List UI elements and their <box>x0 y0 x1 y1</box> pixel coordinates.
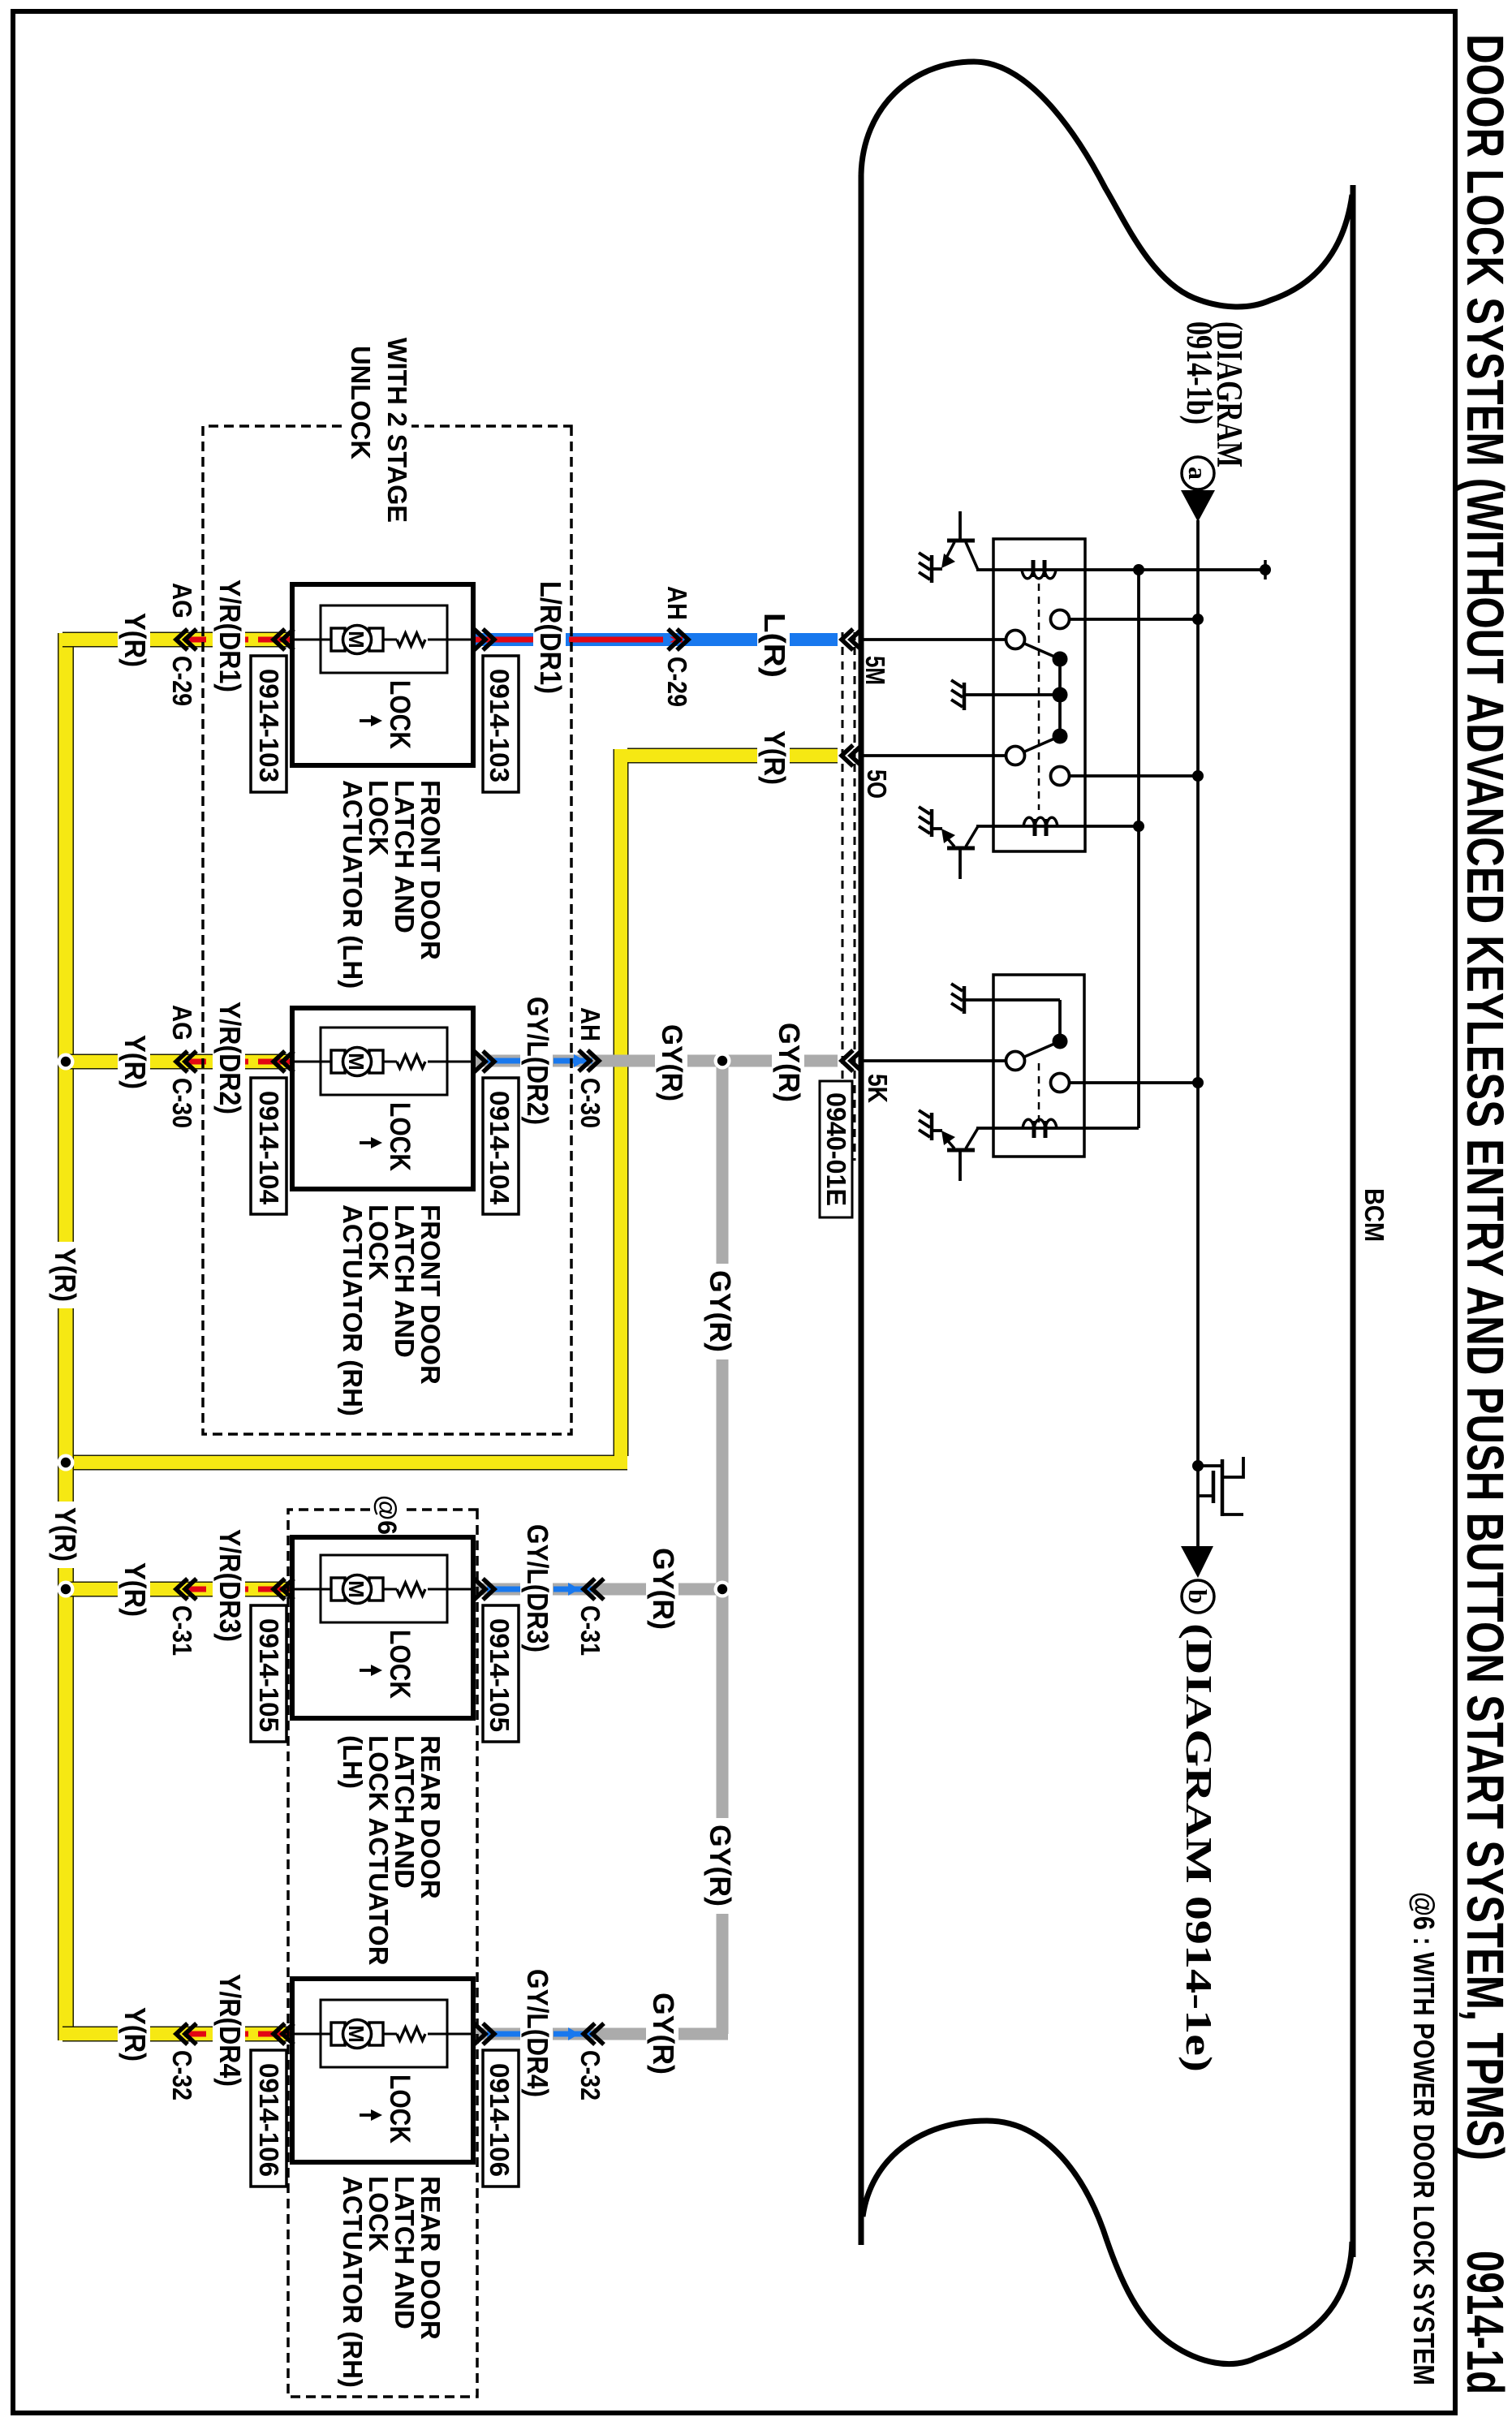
relay1 coil B <box>1023 817 1058 836</box>
actuator4 inner unit <box>321 2000 447 2067</box>
svg-text:LOCK: LOCK <box>384 2075 416 2143</box>
actuator1 resistor <box>397 633 425 646</box>
coil feed line for relay1 coil A (vertical x=702) <box>976 568 1267 571</box>
BCM outline bottom edge <box>859 174 864 2245</box>
svg-text:AH: AH <box>575 1007 605 1041</box>
actuator1 connector label 0914-103 above <box>483 656 519 792</box>
BCM outline top edge <box>1350 185 1356 2257</box>
triangle a <box>1181 490 1215 522</box>
wire GY/L(DR3) <box>473 1583 594 1596</box>
svg-text:(DIAGRAM 0914-1e): (DIAGRAM 0914-1e) <box>1178 1623 1219 2072</box>
svg-text:GY/L(DR3): GY/L(DR3) <box>521 1524 554 1652</box>
actuator 2 : front door latch and lock actuator (RH) <box>274 1008 494 1189</box>
FET transistor <box>1198 1457 1243 1516</box>
svg-text:@6: @6 <box>373 1495 402 1535</box>
actuator 4 : rear door latch and lock actuator (RH) <box>274 1979 494 2162</box>
circled a <box>1182 457 1214 489</box>
svg-text:0914-103: 0914-103 <box>254 669 284 782</box>
label Y(R) act1 drop <box>118 607 152 674</box>
actuator1 lock arrow <box>360 719 374 722</box>
svg-text:LOCK: LOCK <box>364 2176 394 2252</box>
ground for Q1 <box>919 553 932 583</box>
actuator4 lower wires <box>62 2027 292 2042</box>
wire taper tip at C-29 <box>663 633 674 646</box>
actuator4 resistor <box>397 2027 425 2040</box>
ground for Q3 <box>919 1110 932 1140</box>
actuator2 internal wire <box>292 1061 473 1063</box>
connector C-31 on actuator3 top wire <box>584 1579 604 1600</box>
connector C-29 on actuator1 top wire <box>668 629 688 650</box>
svg-text:0914-105: 0914-105 <box>254 1618 284 1732</box>
ground for Q2 <box>919 807 932 837</box>
a-line junction dot near FET <box>1192 1460 1204 1471</box>
label GY/L(DR3) <box>520 1519 554 1659</box>
svg-text:0914-103: 0914-103 <box>485 669 515 782</box>
svg-text:0914-106: 0914-106 <box>254 2063 284 2177</box>
svg-text:GY(R): GY(R) <box>773 1023 806 1102</box>
coil bus line y=460 <box>1137 570 1140 1128</box>
relay1 blade unlock <box>1015 736 1060 756</box>
svg-text:0940-01E: 0940-01E <box>821 1092 851 1206</box>
power line a (horizontal) <box>1196 520 1200 1546</box>
svg-text:REAR DOOR: REAR DOOR <box>416 1735 446 1899</box>
actuator 3 : rear door latch and lock actuator (LH) <box>274 1537 494 1718</box>
svg-text:DOOR LOCK SYSTEM (WITHOUT ADVA: DOOR LOCK SYSTEM (WITHOUT ADVANCED KEYLE… <box>1456 34 1512 2161</box>
svg-text:Y(R): Y(R) <box>118 1562 152 1617</box>
svg-text:LATCH AND: LATCH AND <box>390 780 420 933</box>
connector C-32 on actuator4 drop <box>176 2023 196 2044</box>
transistor Q1 <box>933 511 978 570</box>
wire GY(R) gray from BCM 5K <box>594 1055 838 1067</box>
svg-text:0914-104: 0914-104 <box>485 1091 515 1205</box>
actuator1 internal wire <box>292 639 473 641</box>
svg-text:GY(R): GY(R) <box>656 1024 687 1101</box>
svg-text:(LH): (LH) <box>338 1735 368 1789</box>
svg-text:REAR DOOR: REAR DOOR <box>416 2176 446 2340</box>
wire taper tip at C-30 <box>574 1054 585 1067</box>
svg-text:Y(R): Y(R) <box>118 1035 152 1089</box>
svg-text:Y(R): Y(R) <box>49 1507 82 1562</box>
wire taper tip at C-31 <box>568 1583 579 1596</box>
label GY(R) on act4 drop <box>646 1987 680 2081</box>
relay 2 box <box>993 975 1084 1157</box>
relay1 mid ground <box>951 680 964 710</box>
actuator1 connector label 0914-103 below <box>251 656 286 792</box>
svg-text:@6 : WITH POWER DOOR LOCK SYST: @6 : WITH POWER DOOR LOCK SYSTEM <box>1407 1892 1441 2385</box>
a-line junction dots <box>1192 614 1204 625</box>
svg-text:L(R): L(R) <box>758 613 791 678</box>
actuator3 connector chevrons <box>474 1579 494 1600</box>
svg-text:0914-106: 0914-106 <box>485 2063 515 2177</box>
svg-text:Y/R(DR4): Y/R(DR4) <box>213 1974 247 2087</box>
relay2 blade <box>1015 1041 1060 1061</box>
connector C-30 on actuator2 top wire <box>579 1050 599 1071</box>
circled b <box>1182 1580 1214 1613</box>
actuator4 lock arrow <box>360 2113 374 2117</box>
svg-text:Y/R(DR3): Y/R(DR3) <box>213 1529 247 1642</box>
svg-text:C-32: C-32 <box>167 2050 197 2100</box>
label Y/R(DR1) <box>213 575 247 700</box>
actuator3 connector label 0914-105 below <box>251 1605 286 1742</box>
svg-text:GY/L(DR4): GY/L(DR4) <box>521 1969 554 2097</box>
label L(R) <box>757 607 791 682</box>
actuator3 connector label 0914-105 above <box>483 1605 519 1742</box>
relay1 contact circles <box>1051 610 1070 629</box>
actuator1 box <box>292 584 473 765</box>
label GY(R) below 5K <box>772 1018 806 1107</box>
svg-text:Y(R): Y(R) <box>118 2007 152 2062</box>
label Y(R) on bus 2 <box>49 1502 82 1568</box>
wire taper tip at C-32 <box>568 2027 579 2040</box>
label GY(R) on bus 2 <box>704 1818 738 1914</box>
svg-text:WITH 2 STAGE: WITH 2 STAGE <box>382 338 412 523</box>
svg-text:5K: 5K <box>863 1074 893 1103</box>
coil feed line for relay2 coil (vertical x=1390) <box>976 1127 1139 1130</box>
BCM pin lines <box>861 638 1006 641</box>
svg-text:M: M <box>344 1580 368 1598</box>
label GY/L(DR2) <box>520 992 554 1131</box>
svg-text:AH: AH <box>662 586 692 620</box>
svg-text:BCM: BCM <box>1359 1188 1389 1242</box>
actuator3 motor <box>369 1578 383 1601</box>
svg-text:Y(R): Y(R) <box>49 1247 82 1302</box>
BCM right break <box>863 2121 1352 2364</box>
transistor Q3 <box>933 1128 978 1181</box>
svg-text:GY/L(DR2): GY/L(DR2) <box>521 997 554 1125</box>
svg-text:GY(R): GY(R) <box>704 1825 737 1907</box>
svg-text:GY(R): GY(R) <box>704 1270 737 1352</box>
relay1 contact dots <box>1053 652 1068 667</box>
svg-text:FRONT DOOR: FRONT DOOR <box>416 1204 446 1385</box>
actuator2 resistor <box>397 1055 425 1068</box>
actuator3 inner unit <box>321 1555 447 1622</box>
svg-text:GY(R): GY(R) <box>647 1548 680 1630</box>
svg-text:M: M <box>344 631 368 648</box>
svg-text:LATCH AND: LATCH AND <box>390 2176 420 2329</box>
label Y(R) on 5O wire <box>757 726 791 791</box>
svg-text:L/R(DR1): L/R(DR1) <box>534 581 567 694</box>
svg-text:AG: AG <box>167 583 197 618</box>
actuator2 box <box>292 1008 473 1189</box>
actuator2 inner unit <box>321 1028 447 1095</box>
wire GY/L(DR2) to actuator2 <box>473 1055 594 1067</box>
actuator2 motor <box>369 1050 383 1073</box>
BCM connector dashed lines <box>854 632 856 1161</box>
label GY(R) on act3 drop <box>646 1542 680 1636</box>
actuator2 connector chevrons <box>474 1051 494 1072</box>
actuator1 lower wires <box>62 632 292 648</box>
svg-text:C-32: C-32 <box>575 2050 605 2100</box>
svg-text:0914-1d: 0914-1d <box>1456 2251 1512 2394</box>
svg-text:0914-105: 0914-105 <box>485 1618 515 1732</box>
connector C-29 on actuator1 drop <box>176 629 196 650</box>
svg-text:ACTUATOR (LH): ACTUATOR (LH) <box>338 780 368 989</box>
svg-text:LOCK: LOCK <box>364 1204 394 1281</box>
bus junction dots <box>58 1053 75 1071</box>
svg-text:0914-1b): 0914-1b) <box>1179 321 1220 424</box>
label GY(R) on bus 1 <box>704 1264 738 1359</box>
actuator2 connector label 0914-104 below <box>251 1078 286 1214</box>
svg-text:C-31: C-31 <box>167 1605 197 1656</box>
@6 label <box>373 1492 402 1535</box>
svg-text:M: M <box>344 1053 368 1071</box>
wire L/R(DR1) blue/red to actuator1 <box>473 633 684 646</box>
svg-text:Y(R): Y(R) <box>758 730 791 785</box>
actuator3 lock arrow <box>360 1669 374 1672</box>
label Y(R) act4 drop <box>118 2001 152 2068</box>
BCM left break <box>861 62 1352 307</box>
wire GY/L(DR4) <box>473 2028 594 2040</box>
svg-text:C-31: C-31 <box>575 1605 605 1656</box>
actuator3 box <box>292 1537 473 1718</box>
with 2 stage unlock dashed box <box>203 426 571 1434</box>
junction dot <box>1133 821 1144 832</box>
svg-text:LOCK: LOCK <box>384 1102 416 1171</box>
svg-text:a: a <box>1183 467 1213 480</box>
svg-text:C-29: C-29 <box>662 657 692 707</box>
actuator4 connector label 0914-106 above <box>483 2050 519 2187</box>
relay1 mid ground line <box>964 693 1060 696</box>
actuator 1 : front door latch and lock actuator (LH) <box>274 584 494 765</box>
yellow bus <box>58 633 74 2040</box>
label GY/L(DR4) <box>520 1964 554 2104</box>
svg-text:LOCK: LOCK <box>384 1630 416 1699</box>
wire GY(R) to actuator3 <box>594 1583 728 1596</box>
0940-01E connector label <box>820 1081 852 1217</box>
label GY(R) act2 drop below bus <box>655 1019 687 1107</box>
transistor Q2 <box>933 826 978 879</box>
label Y/R(DR4) <box>213 1969 247 2094</box>
actuator3 resistor <box>397 1583 425 1596</box>
wire Y(R) yellow from BCM 5O <box>69 749 838 1463</box>
label Y(R) on bus 1 <box>49 1242 82 1308</box>
svg-text:AG: AG <box>167 1005 197 1041</box>
@6 dashed box <box>288 1510 477 2397</box>
relay2 top ground <box>951 984 964 1014</box>
relay1 dashed link <box>1038 584 1040 810</box>
triangle b <box>1181 1546 1213 1578</box>
actuator4 internal wire <box>292 2033 473 2036</box>
actuator4 connector label 0914-106 below <box>251 2050 286 2187</box>
relay1 contact wiring <box>1069 618 1198 621</box>
coil feed line for relay1 coil B (vertical x=1018) <box>976 825 1139 828</box>
svg-text:5M: 5M <box>860 656 890 685</box>
gray bus <box>717 1061 729 2034</box>
svg-text:ACTUATOR (RH): ACTUATOR (RH) <box>338 1204 368 1416</box>
svg-text:Y(R): Y(R) <box>118 613 152 667</box>
relay2 dashed link <box>1038 1063 1040 1127</box>
label Y/R(DR2) <box>213 997 247 1122</box>
svg-text:LOCK: LOCK <box>384 680 416 749</box>
with 2 stage unlock label <box>346 333 412 528</box>
actuator3 internal wire <box>292 1588 473 1591</box>
connector C-31 on actuator3 drop <box>176 1579 196 1600</box>
relay1 coil A <box>1022 560 1056 579</box>
relay1 blade lock <box>1015 640 1060 659</box>
wire GY(R) to actuator4 <box>594 2028 728 2040</box>
svg-text:UNLOCK: UNLOCK <box>346 346 376 459</box>
chevrons at BCM connector <box>842 629 862 650</box>
relay 1 box <box>993 539 1085 851</box>
actuator4 box <box>292 1979 473 2162</box>
svg-text:LATCH AND: LATCH AND <box>390 1735 420 1889</box>
actuator1 inner unit <box>321 605 447 673</box>
label Y(R) act3 drop <box>118 1557 152 1623</box>
actuator1 motor <box>369 628 383 651</box>
relay2 contact wiring <box>964 1000 1060 1041</box>
svg-text:Y/R(DR2): Y/R(DR2) <box>213 1002 247 1114</box>
connector C-30 on actuator2 drop <box>176 1051 196 1072</box>
junction dot <box>1133 564 1144 575</box>
svg-text:0914-104: 0914-104 <box>254 1091 284 1205</box>
svg-text:LATCH AND: LATCH AND <box>390 1204 420 1358</box>
label Y/R(DR3) <box>213 1524 247 1649</box>
relay2 coil <box>1023 1119 1057 1138</box>
label Y(R) act2 drop <box>118 1029 152 1096</box>
svg-text:C-30: C-30 <box>167 1078 197 1128</box>
actuator2 lower wires <box>62 1054 292 1070</box>
svg-text:ACTUATOR (RH): ACTUATOR (RH) <box>338 2176 368 2388</box>
actuator2 lock arrow <box>360 1141 374 1144</box>
svg-text:LOCK: LOCK <box>364 780 394 856</box>
svg-text:LOCK ACTUATOR: LOCK ACTUATOR <box>364 1735 394 1966</box>
svg-text:M: M <box>344 2025 368 2043</box>
svg-text:FRONT DOOR: FRONT DOOR <box>416 780 446 960</box>
wire L(R) blue from BCM 5M <box>684 633 838 646</box>
actuator3 lower wires <box>62 1582 292 1597</box>
actuator4 connector chevrons <box>474 2023 494 2044</box>
svg-text:b: b <box>1183 1589 1213 1604</box>
svg-text:5O: 5O <box>862 769 892 799</box>
actuator4 motor <box>369 2023 383 2045</box>
svg-text:C-30: C-30 <box>575 1078 605 1128</box>
svg-text:GY(R): GY(R) <box>647 1993 680 2075</box>
connector C-32 on actuator4 top wire <box>584 2023 604 2044</box>
actuator2 connector label 0914-104 above <box>483 1078 519 1214</box>
svg-text:C-29: C-29 <box>167 656 197 706</box>
label L/R(DR1) <box>533 576 567 704</box>
actuator1 connector chevrons <box>474 629 494 650</box>
svg-text:Y/R(DR1): Y/R(DR1) <box>213 579 247 692</box>
terminal tick at top of coil feed <box>1264 560 1267 579</box>
